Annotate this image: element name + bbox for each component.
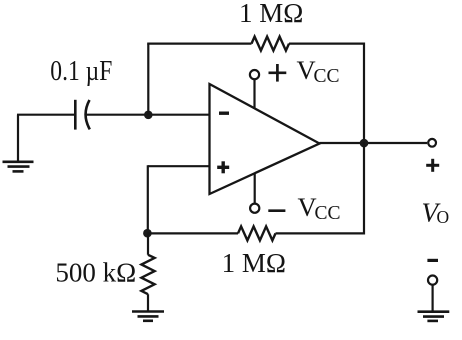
wire: bottom feedback right segment bbox=[276, 142, 365, 233]
resistor R3 (500 k&#937;) bbox=[141, 255, 154, 294]
terminal -VCC bbox=[250, 173, 259, 213]
node: output junction bbox=[360, 139, 369, 148]
wire: capacitor to inverting input bbox=[87, 114, 210, 116]
wire: non-inverting input horizontal bbox=[148, 165, 210, 167]
terminal Vo (output) bbox=[428, 139, 436, 147]
svg-text:500 kΩ: 500 kΩ bbox=[55, 257, 136, 287]
ground (bottom-left) bbox=[132, 312, 164, 321]
wire: non-inverting input vertical bbox=[147, 165, 149, 233]
wire: junction up to feedback loop bbox=[147, 44, 149, 115]
label Vo bbox=[422, 197, 450, 227]
wire: op-amp output bbox=[320, 142, 428, 144]
node: non-inverting junction bbox=[143, 229, 152, 238]
terminal +VCC bbox=[250, 70, 259, 109]
resistor R2 (1 M&#937; bottom) bbox=[238, 226, 276, 240]
wire: junction to 500k resistor bbox=[147, 233, 149, 255]
label − VCC bbox=[268, 192, 340, 224]
label − (output polarity) bbox=[427, 259, 438, 262]
svg-text:O: O bbox=[437, 207, 450, 227]
capacitor C1 bbox=[75, 100, 90, 130]
wire: top feedback right segment bbox=[289, 44, 364, 143]
svg-text:CC: CC bbox=[315, 203, 341, 224]
svg-text:1 MΩ: 1 MΩ bbox=[239, 0, 303, 28]
wire: input to capacitor bbox=[17, 114, 75, 116]
ground (output side) bbox=[418, 285, 450, 321]
wire: top feedback left segment bbox=[148, 44, 251, 45]
op-amp U1 bbox=[210, 84, 320, 194]
label + (output polarity) bbox=[426, 159, 439, 172]
svg-text:0.1 µF: 0.1 µF bbox=[50, 56, 112, 87]
wire: bottom feedback left segment bbox=[147, 232, 238, 234]
resistor R1 (feedback 1 M&#937;) bbox=[252, 37, 290, 51]
node: inverting input junction bbox=[144, 111, 153, 120]
ground (input side) bbox=[3, 115, 34, 172]
label + VCC bbox=[269, 55, 340, 87]
terminal (output return) bbox=[428, 276, 437, 285]
svg-text:CC: CC bbox=[314, 66, 340, 87]
svg-text:1 MΩ: 1 MΩ bbox=[222, 248, 286, 278]
wire: 500k resistor to ground bbox=[147, 294, 149, 310]
